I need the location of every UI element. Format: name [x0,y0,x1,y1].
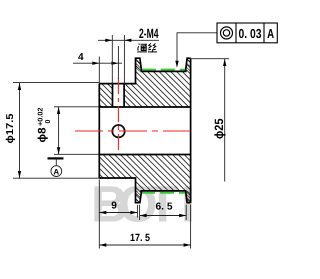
dim 6.5 line [140,215,187,217]
dim 9 line [99,212,137,214]
dim 6.5 ext right [185,205,187,220]
watermark letters [91,176,195,233]
dim phi25 line [224,59,226,182]
svg-text:9: 9 [111,200,117,211]
dim 9 arrow right [130,211,137,214]
dim 17.5 arrow right [184,243,191,246]
dim 9 ext at lip outer [136,205,138,218]
svg-text:17. 5: 17. 5 [130,232,150,244]
green pitch line top [142,69,186,71]
dim phi8 text with tolerance [37,107,53,142]
dim 9 arrow left [99,211,106,214]
part outline top profile [99,58,190,83]
dim phi25 arrow [223,59,226,66]
green pitch line bottom [141,192,185,194]
svg-text:0. 03: 0. 03 [239,26,262,41]
svg-text:ϕ17.5: ϕ17.5 [5,113,16,143]
M4 hole right wall [123,84,125,107]
part right face [190,58,192,203]
red horizontal centerline [75,130,190,132]
tolerance frame leader [177,33,217,66]
lip hatch bottom-right [186,191,191,203]
ext line hub left face above [98,57,100,84]
hatch lower hub [99,155,135,179]
label tongsi (Chinese: through thread), drawn as strokes [137,43,157,52]
part left face [98,84,100,178]
dim 17.5 arrow left [99,243,106,246]
dim phi17.5 extension top [13,82,99,84]
dim phi8 extension top [54,106,99,108]
hatch upper hub left of M4 hole [99,84,112,107]
lip hatch bottom-left [136,191,142,203]
hatch upper rim with flange lips [136,58,191,107]
dim 6.5 arrow right [179,214,186,217]
dim 6.5 arrow left [140,214,147,217]
M4 hole left wall [112,84,114,107]
concentricity symbol [221,27,233,39]
hatch upper hub right of M4 hole [124,84,135,107]
svg-text:+0.02: +0.02 [38,107,45,126]
svg-text:A: A [53,167,59,176]
dim 2-M4 arrow left [105,39,112,42]
ext line hole center above [117,46,119,79]
bore bottom edge [99,154,190,156]
dim 2-M4 line [98,39,159,41]
red vertical centerline of M4 holes [117,78,119,154]
dim 17.5 ext left [98,180,100,249]
ext line hole right wall [123,35,125,84]
svg-text:ϕ8: ϕ8 [37,128,49,143]
ext line hole left wall [111,35,113,84]
hatch lower rim with flange lips [136,155,191,203]
svg-text:2-M4: 2-M4 [139,26,159,41]
tolerance frame leader arrow [175,61,178,68]
dim 17.5 line [99,244,190,246]
datum stem [55,158,57,166]
dim phi17.5 arrow up [18,83,21,90]
dim phi8 line [58,107,60,154]
datum bar [48,157,64,159]
bore top edge [99,106,190,108]
part outline bottom profile [99,178,190,203]
lip hatch top-right [186,58,191,71]
svg-text:4: 4 [78,52,84,63]
svg-text:0: 0 [45,120,52,124]
dim 4 arrow at hole center [111,62,118,65]
lip hatch top-left [136,58,142,71]
dim phi17.5 line [19,83,21,178]
svg-text:ϕ25: ϕ25 [212,118,226,139]
dim phi8 extension bottom [54,153,99,155]
datum circle A [51,166,62,177]
dim phi8 arrow down [57,147,60,154]
dim 6.5 ext left [139,205,141,220]
svg-text:6. 5: 6. 5 [156,202,173,213]
dim phi17.5 extension bottom [13,177,100,179]
tolerance frame box [217,23,277,43]
dim 4 line [73,62,122,64]
dim phi17.5 arrow down [18,171,21,178]
dim 4 arrow at hub face [92,62,99,65]
dim phi8 arrow up [57,107,60,114]
M4 radial hole circle in bore [112,125,124,137]
dim phi25 extension [191,58,229,60]
svg-text:A: A [267,26,274,41]
dim 2-M4 arrow right [124,39,131,42]
dim 17.5 ext right [190,205,192,249]
